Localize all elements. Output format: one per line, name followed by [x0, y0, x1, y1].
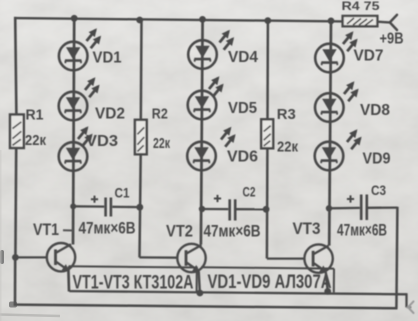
resistor R1 [10, 115, 24, 149]
wire left drop from rail to R1 [15, 17, 16, 116]
svg-text:C1: C1 [115, 185, 130, 201]
svg-text:VD3: VD3 [86, 133, 118, 150]
wire feedback riser up to C3 right plate [396, 207, 397, 308]
wire stub to negative terminal [407, 306, 412, 308]
wire LED column 3 (rail to VT3 collector) [329, 21, 331, 246]
wire C2 right to R3 node [236, 208, 266, 210]
capacitor C2 plates [230, 199, 236, 220]
junction C1/R2 (VT2 base node) [136, 204, 143, 211]
svg-text:R4 75: R4 75 [342, 0, 380, 13]
wire VT1 base node down to bottom feedback rail [14, 258, 17, 306]
wire stub at VT1 collector label [63, 229, 73, 231]
light-emission arrows of VD6 [221, 127, 236, 147]
LED VD1 [59, 42, 88, 71]
LED VD4 [188, 40, 217, 69]
wire R1 bottom to VT1 base node [14, 148, 17, 258]
junction rail/column1 [71, 15, 78, 22]
transistor VT3 (NPN) [304, 244, 332, 272]
wire top +9V rail [14, 18, 343, 21]
connector X1 +9V terminal [390, 15, 397, 30]
junction R1/VT1 base node [12, 254, 19, 261]
svg-text:47мк×6В: 47мк×6В [79, 219, 136, 238]
capacitor C1 plates [106, 198, 111, 217]
plus of C3 [347, 195, 354, 202]
transistor VT1 (NPN) [47, 243, 75, 271]
junction rail/column2 [199, 16, 206, 23]
LED VD8 [315, 93, 344, 122]
junction VT2 emitter/ground rail [197, 290, 204, 297]
resistor R3 [261, 119, 273, 148]
LED VD3 [59, 142, 88, 171]
connector X2 negative terminal [408, 301, 414, 313]
svg-text:47мк×6В: 47мк×6В [337, 221, 387, 240]
light-emission arrows of VD4 [220, 30, 235, 50]
svg-text:VT1-VT3 КТ3102А: VT1-VT3 КТ3102А [73, 273, 194, 294]
light-emission arrows of VD9 [347, 129, 362, 149]
wire C1 right to R2 node [112, 206, 140, 209]
wire to VT2 base [139, 256, 177, 259]
wire VT1 emitter to ground rail [67, 271, 70, 292]
junction column2/C2 [199, 206, 205, 212]
svg-text:VT2: VT2 [166, 222, 193, 241]
label box VT1-VT3 KT3102A [69, 266, 197, 293]
svg-text:VD2: VD2 [95, 106, 125, 123]
wire R2 bottom through C1 node to VT2 base level [140, 154, 141, 257]
wire C2 left [202, 208, 228, 210]
junction rail/column3 [328, 18, 335, 25]
svg-text:VD8: VD8 [360, 102, 390, 119]
svg-text:VD1-VD9 АЛ307А: VD1-VD9 АЛ307А [208, 272, 332, 293]
light-emission arrows of VD7 [343, 31, 358, 51]
svg-text:VD9: VD9 [363, 151, 391, 168]
junction column3/C3 [326, 205, 332, 211]
wire LED column 1 (rail to VT1 collector) [73, 18, 74, 244]
svg-text:R1: R1 [26, 108, 44, 124]
svg-text:22к: 22к [25, 132, 46, 149]
svg-text:22к: 22к [277, 139, 298, 156]
svg-text:VD5: VD5 [228, 100, 257, 117]
wire LED column 2 (rail to VT2 collector) [201, 19, 203, 245]
wire VT3 emitter to ground rail [326, 272, 328, 291]
light-emission arrows of VD2 [85, 77, 100, 97]
plus of C2 [214, 195, 221, 202]
light-emission arrows of VD5 [209, 76, 224, 96]
LED VD9 [315, 142, 344, 171]
wire C3 left [329, 207, 360, 210]
light-emission arrows of VD3 [78, 126, 93, 146]
LED VD5 [188, 91, 217, 120]
wire from R4 to connector [377, 21, 389, 24]
capacitor C3 plates [361, 195, 367, 221]
light-emission arrows of VD1 [87, 28, 102, 48]
wire rail to R3 top [266, 21, 269, 120]
wire VT1 base [15, 256, 47, 258]
label box VD1-VD9 AL307A [201, 267, 334, 293]
wire C3 right to feedback riser [368, 206, 397, 208]
svg-text:C2: C2 [243, 184, 256, 200]
transistor VT2 (NPN) [177, 244, 205, 272]
resistor R2 [135, 120, 147, 155]
junction rail/R2 [136, 17, 143, 24]
wire rail to R2 top [140, 20, 143, 120]
svg-text:VD4: VD4 [228, 49, 258, 66]
LED VD2 [59, 92, 88, 121]
junction column1/C1 [70, 203, 76, 209]
wire ground rail (emitters) [69, 291, 406, 294]
wire VT2 emitter to ground rail [199, 272, 200, 294]
svg-text:VT1: VT1 [33, 220, 59, 239]
wire ground rail drop at right [405, 293, 407, 307]
LED VD7 [315, 44, 344, 73]
wire to VT3 base [267, 257, 305, 259]
svg-text:C3: C3 [371, 182, 386, 198]
svg-text:47мк×6В: 47мк×6В [204, 222, 261, 241]
wire bottom feedback rail (C3 to VT1 base) [14, 305, 398, 309]
plus of C1 [91, 196, 98, 203]
LED VD6 [187, 142, 216, 171]
scan artifacts (page texture) [0, 150, 60, 321]
svg-text:R3: R3 [277, 107, 296, 123]
resistor R4 [343, 16, 378, 26]
svg-text:VT3: VT3 [293, 219, 321, 238]
junction rail/R3 [264, 17, 271, 24]
wire C1 left [73, 205, 104, 208]
wire R3 bottom through C2 node to VT3 base level [266, 148, 269, 259]
svg-text:+9В: +9В [380, 31, 404, 48]
junction C2/R3 (VT3 base node) [263, 206, 270, 213]
svg-text:VD1: VD1 [93, 50, 122, 67]
light-emission arrows of VD8 [344, 81, 359, 101]
junction VT3 emitter/ground rail [324, 288, 331, 295]
svg-text:VD7: VD7 [354, 48, 384, 65]
svg-text:VD6: VD6 [227, 149, 258, 166]
svg-text:22к: 22к [153, 135, 170, 152]
svg-text:R2: R2 [152, 107, 168, 123]
